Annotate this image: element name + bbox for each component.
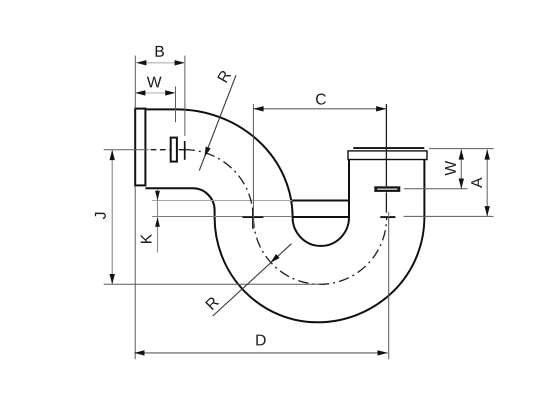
dim A xyxy=(485,149,490,216)
trap body outline xyxy=(135,109,427,323)
label D xyxy=(256,335,265,346)
outlet centerline xyxy=(385,104,387,213)
weir line L1 bold xyxy=(292,200,349,202)
label B xyxy=(156,46,164,57)
inlet centerline dashes xyxy=(151,149,187,151)
bowl centerline arc xyxy=(253,217,386,284)
W right extension xyxy=(175,87,177,123)
weir line L2 bold xyxy=(292,216,349,218)
R bottom leader xyxy=(213,244,292,316)
dim W right xyxy=(459,149,464,188)
dim D xyxy=(134,350,387,355)
label J xyxy=(95,213,106,219)
label R top xyxy=(217,69,231,82)
extension lines (thin dark) xyxy=(104,56,494,360)
L2 grey extension xyxy=(152,216,292,218)
label K xyxy=(141,234,152,243)
B/W left extension xyxy=(134,56,136,109)
B laying length tick xyxy=(184,141,186,160)
L1 grey extension xyxy=(152,200,292,202)
hub top right extension xyxy=(429,148,494,150)
label W top xyxy=(147,77,162,88)
dim W top xyxy=(135,90,175,95)
elbow centerline arc xyxy=(184,150,253,218)
J top extension xyxy=(104,149,149,151)
R top leader xyxy=(199,75,236,170)
inlet hub band xyxy=(135,109,145,186)
B right extension xyxy=(184,56,186,136)
pipe outline xyxy=(145,109,424,322)
label R bottom xyxy=(205,296,219,310)
outlet center tick xyxy=(380,216,395,218)
outlet hub top chamfer line xyxy=(353,147,424,149)
socket gauge mark right xyxy=(374,186,400,192)
gauge right extension xyxy=(404,188,468,190)
centerlines xyxy=(151,104,387,284)
dim B xyxy=(136,60,185,65)
label C xyxy=(316,94,326,105)
dim J xyxy=(110,150,115,284)
J bottom extension xyxy=(104,283,321,285)
D right extension xyxy=(388,212,390,359)
center cross xyxy=(242,208,263,229)
dim C xyxy=(253,106,386,111)
grey level extension lines xyxy=(152,201,292,217)
C left extension xyxy=(252,104,254,229)
A bottom extension xyxy=(404,215,494,217)
label W right xyxy=(445,161,456,176)
outlet hub band xyxy=(348,151,427,160)
label A xyxy=(471,177,482,187)
D left extension xyxy=(134,186,136,359)
dim K (external arrows) xyxy=(155,189,160,252)
socket gauge mark left xyxy=(171,138,177,162)
dimension lines with arrows xyxy=(110,60,490,355)
